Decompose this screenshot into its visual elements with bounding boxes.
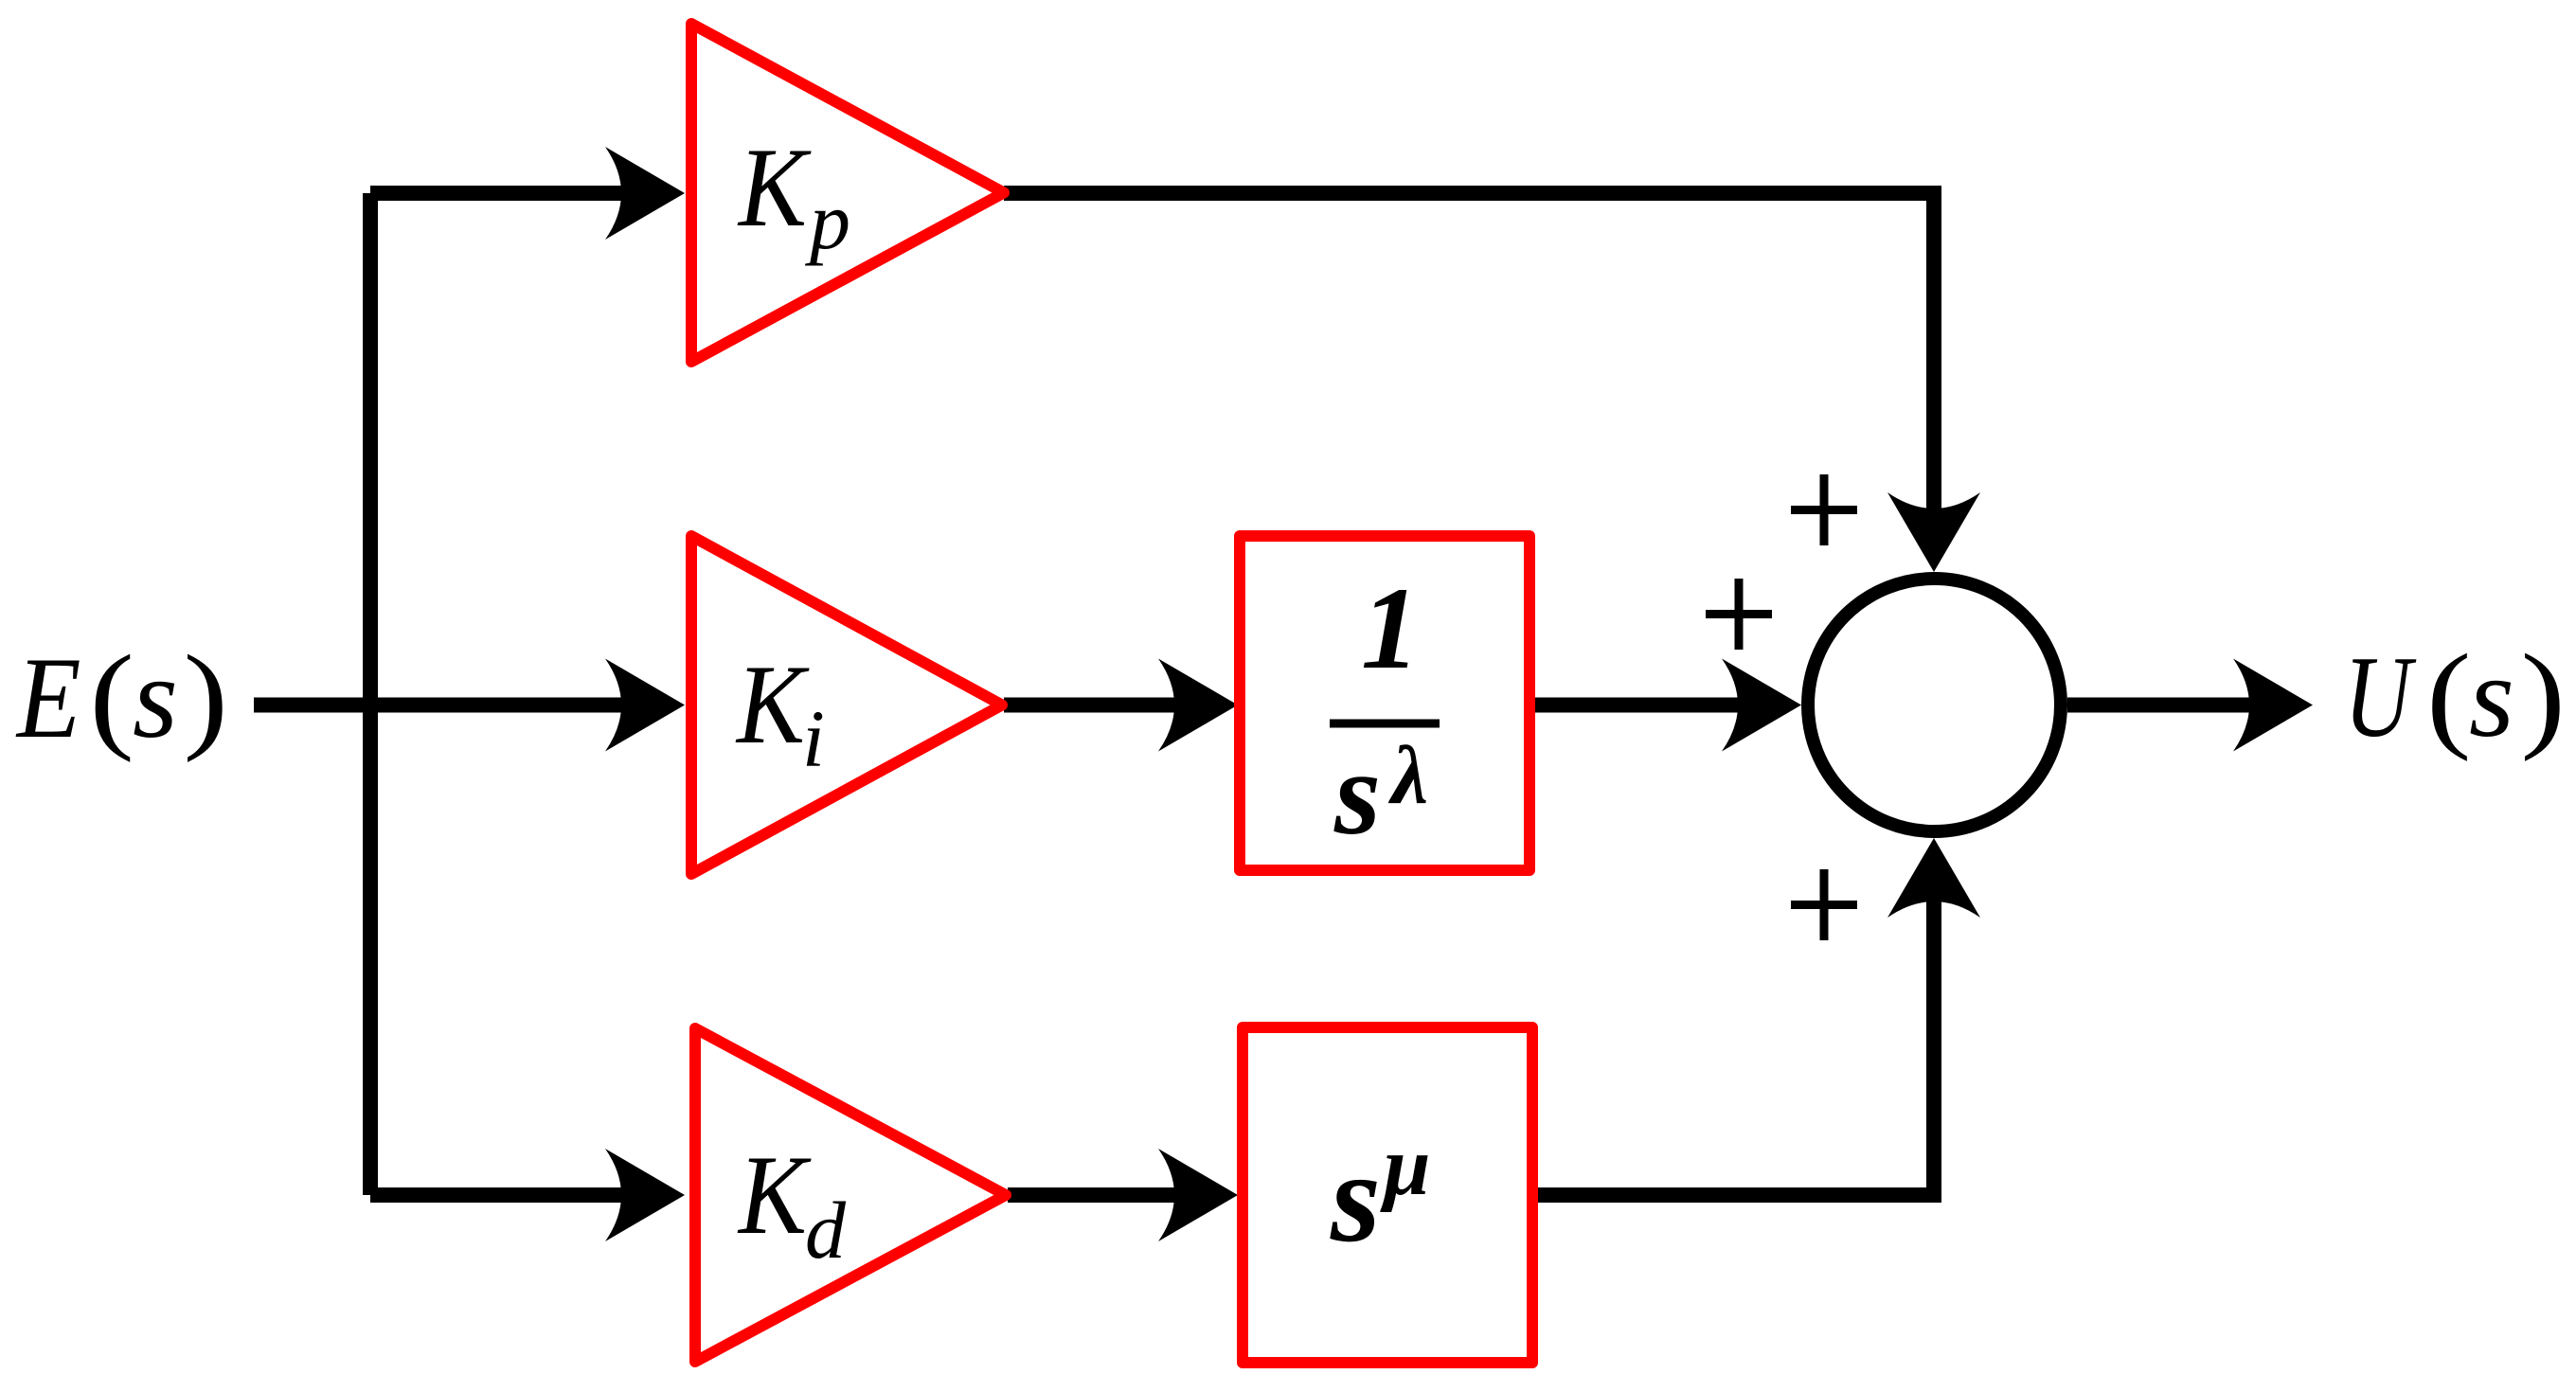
svg-text:s: s bbox=[1330, 1127, 1381, 1269]
svg-text:λ: λ bbox=[1387, 730, 1428, 822]
svg-text:s: s bbox=[133, 633, 178, 762]
svg-text:1: 1 bbox=[1361, 563, 1420, 693]
svg-text:(: ( bbox=[89, 631, 134, 763]
svg-text:E: E bbox=[15, 634, 81, 763]
svg-text:K: K bbox=[737, 124, 812, 250]
svg-text:d: d bbox=[805, 1185, 847, 1276]
svg-text:s: s bbox=[1333, 728, 1381, 860]
svg-text:s: s bbox=[2469, 632, 2514, 761]
svg-text:K: K bbox=[735, 641, 810, 767]
svg-text:U: U bbox=[2344, 634, 2417, 762]
svg-text:μ: μ bbox=[1380, 1120, 1431, 1213]
svg-text:): ) bbox=[2521, 630, 2566, 762]
svg-text:K: K bbox=[737, 1132, 812, 1258]
svg-text:i: i bbox=[802, 693, 825, 784]
svg-text:p: p bbox=[804, 175, 850, 266]
svg-text:(: ( bbox=[2426, 630, 2471, 762]
svg-text:): ) bbox=[184, 631, 228, 763]
